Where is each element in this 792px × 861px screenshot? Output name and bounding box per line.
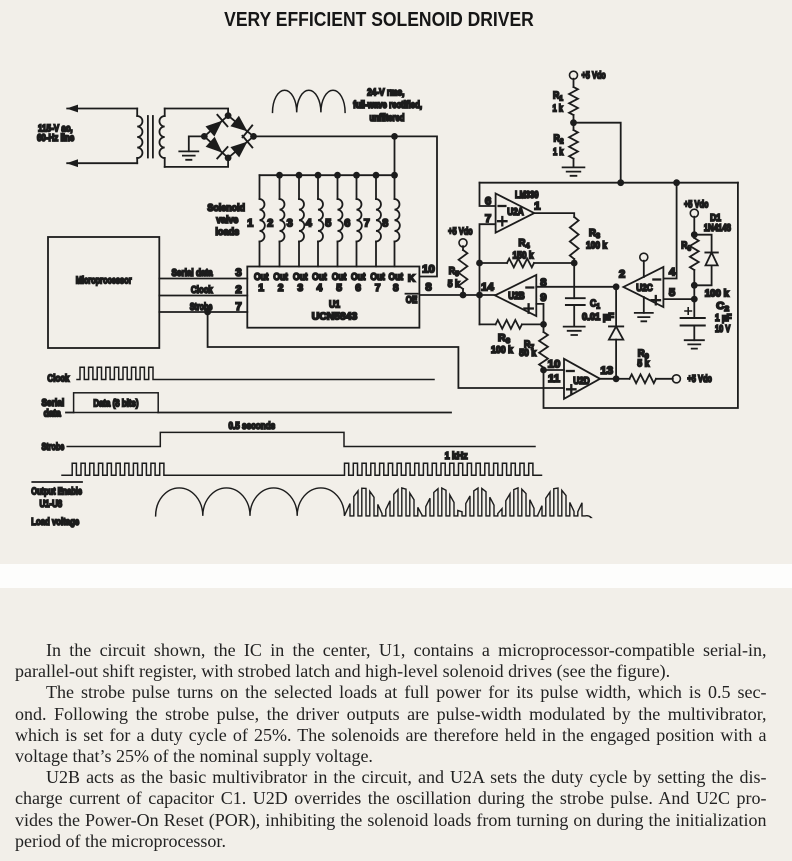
terminal +5 Vdc at R9 [672,375,680,383]
svg-text:full-wave rectified,: full-wave rectified, [353,100,422,111]
svg-text:2: 2 [278,283,284,294]
svg-text:4: 4 [306,218,312,230]
svg-text:Out: Out [254,272,269,283]
solenoid coil 1 [259,175,261,199]
bridge diode lower-right [230,142,247,158]
svg-text:3: 3 [287,218,293,230]
svg-text:5 k: 5 k [637,359,649,370]
svg-text:R2: R2 [554,133,564,145]
svg-text:R8: R8 [681,241,691,253]
microprocessor box [48,237,159,348]
label Output Enable U1-U8 with overline [32,481,82,483]
bridge rectifier diamond [204,116,253,158]
wire U2C pin 4 to reference net [663,183,676,279]
svg-text:Clock: Clock [47,373,69,384]
junction U2D output [613,375,620,382]
icon rectified waveform [273,90,346,112]
junction C2 top pin 5 [691,296,698,303]
svg-text:6: 6 [355,283,361,294]
op-amp U2A LM339 [496,194,535,233]
svg-text:150 k: 150 k [513,250,534,261]
label C2 plus sign [685,308,691,314]
solenoid coil 5 [337,175,339,199]
svg-text:R6: R6 [498,333,510,345]
solenoid coil 3 [298,175,300,199]
junction R3 R4 C1 [571,260,578,267]
svg-text:7: 7 [235,301,241,313]
svg-text:100 k: 100 k [491,345,513,356]
svg-text:1: 1 [534,201,541,213]
solenoid coil 4 [317,175,319,199]
svg-text:Out: Out [273,272,288,283]
svg-text:2: 2 [235,284,241,296]
wire clock pin 2 [159,295,247,297]
svg-text:10: 10 [548,359,561,371]
wire load bus [394,136,396,175]
wire U2A pin 6 to reference rail [480,183,496,206]
svg-text:1 k: 1 k [553,104,564,115]
svg-text:1N4148: 1N4148 [704,223,731,234]
svg-text:C2: C2 [716,301,729,313]
svg-text:R5: R5 [449,266,459,278]
svg-text:Output Enable: Output Enable [31,487,82,498]
load voltage waveform [156,488,591,518]
wire divider midpoint to reference net [574,123,621,183]
svg-text:U1-U8: U1-U8 [39,499,62,510]
wire U2C pin 5 [663,298,694,300]
IC U1 UCN5843 box [247,267,419,328]
diode D1 1N4148 [694,235,711,253]
junction load bus 8 [391,172,398,179]
wire reference net top [480,182,738,184]
wire pin 10 stub [544,369,565,371]
svg-text:Microprocessor: Microprocessor [76,275,132,286]
svg-text:Out: Out [312,272,327,283]
svg-text:50 k: 50 k [519,348,536,359]
ground U2C [643,297,645,313]
wire secondary top to bridge [165,109,228,116]
wire AC line arrow bottom [67,162,137,164]
title VERY EFFICIENT SOLENOID DRIVER [224,8,534,32]
svg-text:10 V: 10 V [715,324,731,335]
junction rail to load bus [391,133,398,140]
svg-text:R3: R3 [589,228,600,240]
svg-text:5: 5 [336,283,342,294]
svg-text:5: 5 [325,218,331,230]
svg-text:5: 5 [669,287,676,299]
op-amp U2B [495,275,536,316]
solenoid coil 7 [375,175,377,199]
wire bridge left to ground [189,136,205,151]
svg-text:Out: Out [293,272,308,283]
resistor R3 [570,217,579,259]
wire AC line arrow top [67,108,137,110]
wire strobe pin 7 [159,311,247,313]
svg-text:Data (8 bits): Data (8 bits) [93,399,138,410]
solenoid coil 6 [356,175,358,199]
svg-text:5 k: 5 k [448,279,460,290]
wire U2C output down [615,287,617,327]
svg-text:Out: Out [389,272,404,283]
ground below C1 [564,327,585,335]
terminal U2C power [640,253,648,261]
junction bridge bottom [225,155,232,162]
svg-text:3: 3 [298,283,304,294]
junction R8 top [691,231,698,238]
svg-text:14: 14 [481,282,494,294]
svg-text:Solenoid: Solenoid [207,203,245,214]
svg-text:6: 6 [344,218,350,230]
junction load bus 7 [373,172,380,179]
svg-text:unfiltered: unfiltered [370,113,405,124]
junction load bus 5 [334,172,341,179]
svg-text:6: 6 [485,196,491,208]
clock waveform [77,367,434,379]
junction reference net at x=620.7 [617,179,624,186]
svg-text:Out: Out [332,272,347,283]
svg-text:100 k: 100 k [586,241,607,252]
svg-text:60-Hz line: 60-Hz line [37,133,75,144]
wire feedback loop to reference net [544,183,738,408]
wire secondary bottom to bridge [165,158,228,167]
svg-text:U2C: U2C [636,283,653,294]
svg-text:loads: loads [215,227,239,238]
svg-text:Clock: Clock [191,285,213,296]
op-amp U2D [564,359,600,399]
svg-text:U2D: U2D [573,376,590,387]
resistor R8 [693,235,695,238]
wire U2A output to R3 [534,213,574,217]
wire R8 bottom to pin5 node [693,285,695,299]
svg-text:Load voltage: Load voltage [31,517,79,528]
junction load bus 2 [276,172,283,179]
svg-text:1: 1 [258,283,264,294]
wire strobe to U2D pin 11 [208,312,564,388]
svg-text:K: K [408,273,416,284]
junction bridge top [225,112,232,119]
svg-text:+5 Vdc: +5 Vdc [582,70,606,81]
svg-text:+5 Vdc: +5 Vdc [687,374,712,385]
junction load bus 6 [353,172,360,179]
svg-text:7: 7 [485,213,491,225]
transformer T1 core [147,116,149,158]
bridge diode lower-left [206,137,223,153]
svg-text:1 k: 1 k [553,147,564,158]
diode D2 [609,325,623,327]
svg-text:UCN5843: UCN5843 [312,312,358,323]
junction reference net at x=676.6 [673,179,680,186]
terminal +5 Vdc for R1 [570,71,578,79]
resistor R1 [573,79,575,87]
ground at bridge [179,151,198,159]
bridge diode upper-left [206,121,223,137]
svg-text:Serial data: Serial data [172,268,214,279]
transformer T1 primary winding [136,109,138,117]
resistor R7 [543,324,545,332]
svg-text:R1: R1 [553,90,563,102]
junction R6 R7 pin9 [540,321,547,328]
svg-text:10: 10 [422,263,435,275]
svg-text:2: 2 [619,269,625,281]
svg-text:U2A: U2A [507,207,524,218]
wire U2B pin 8 [536,286,616,288]
ground below C2 [685,340,704,348]
svg-text:4: 4 [317,283,323,294]
svg-text:OE: OE [406,295,418,306]
output enable waveform [62,463,168,475]
resistor R4 [480,262,508,264]
wire +5V to R8 top [693,217,695,235]
junction U2C output node [613,283,620,290]
svg-text:8: 8 [382,218,388,230]
capacitor C2 [693,299,695,318]
junction reference column at OE wire [476,292,483,299]
svg-text:3: 3 [235,267,241,279]
svg-text:U1: U1 [329,299,340,310]
svg-text:0.01 µF: 0.01 µF [582,312,614,323]
svg-text:+5 Vdc: +5 Vdc [684,199,709,210]
resistor R5 [462,246,464,250]
svg-text:Out: Out [351,272,366,283]
junction R4 left [476,260,483,267]
svg-text:1 µF: 1 µF [715,313,732,324]
svg-text:4: 4 [669,266,676,278]
bridge diode upper-right [230,116,247,132]
svg-text:8: 8 [393,283,399,294]
junction bridge right [250,133,257,140]
svg-text:2: 2 [267,218,273,230]
serial data box [66,412,74,414]
svg-text:data: data [44,408,62,419]
svg-text:8: 8 [425,282,431,294]
white strip below figure [0,564,792,588]
op-amp U2C [623,267,663,307]
solenoid coil 8 [394,175,396,199]
wire U2A pin 7 down to R4 node [480,224,496,324]
svg-text:Out: Out [370,272,385,283]
svg-text:0.5 seconds: 0.5 seconds [228,421,275,432]
strobe waveform [67,432,535,446]
junction load bus 4 [315,172,322,179]
junction R7 bottom U2D pin 10 [540,367,547,374]
svg-text:Strobe: Strobe [42,442,65,453]
svg-text:+5 Vdc: +5 Vdc [448,227,473,238]
wire U2D output [600,378,616,380]
junction R1 R2 midpoint [570,119,577,126]
junction bridge left [201,133,208,140]
svg-text:100 k: 100 k [705,288,730,299]
junction load bus 3 [296,172,303,179]
svg-text:1 kHz: 1 kHz [445,451,468,462]
wire U2B pin 9 [536,304,543,325]
wire DC rail [254,136,438,276]
resistor R6 [480,323,496,325]
svg-text:24-V rms,: 24-V rms, [367,87,405,98]
svg-text:C1: C1 [590,299,600,311]
junction R8 bottom [691,282,698,289]
solenoid coil 2 [279,175,281,199]
svg-text:valve: valve [216,215,238,226]
junction strobe [204,309,211,316]
capacitor C1 [573,263,575,298]
resistor R9 [616,378,629,380]
transformer T1 secondary winding [164,109,166,117]
svg-text:11: 11 [548,373,561,385]
svg-text:7: 7 [375,283,381,294]
resistor R2 [573,123,575,130]
wire OE pin to R5 node and U2B output [419,294,495,296]
svg-text:7: 7 [364,218,370,230]
svg-text:LM339: LM339 [515,190,539,201]
wire serial data pin 3 [159,278,247,280]
junction R5 bottom [460,292,467,299]
svg-text:1: 1 [247,218,253,230]
ground below R2 [563,167,585,175]
svg-text:R4: R4 [519,238,531,250]
svg-text:13: 13 [600,365,613,377]
svg-text:U2B: U2B [508,291,525,302]
svg-text:9: 9 [540,292,546,304]
